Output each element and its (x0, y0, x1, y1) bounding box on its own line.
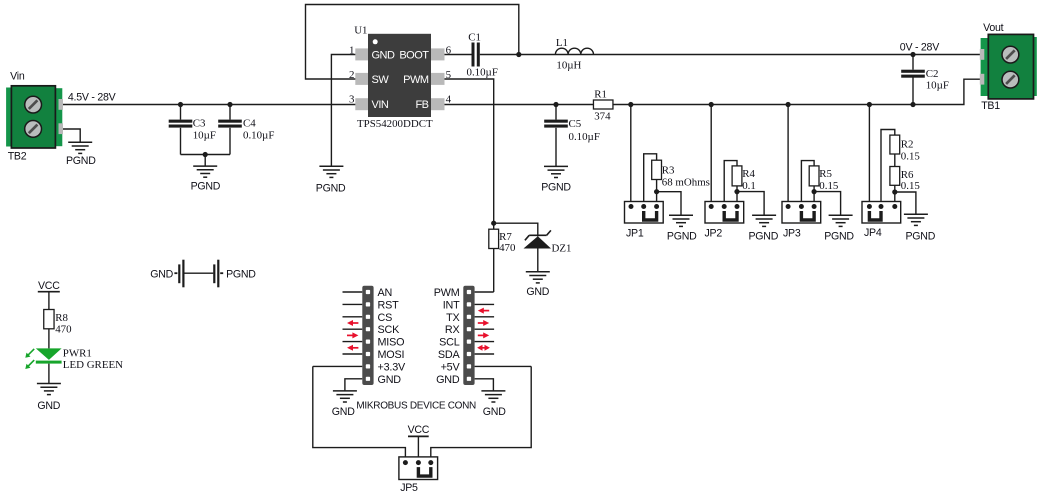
svg-text:PGND: PGND (667, 231, 697, 243)
svg-text:GND: GND (150, 269, 173, 281)
svg-text:PGND: PGND (541, 182, 571, 194)
svg-text:SCK: SCK (378, 324, 401, 336)
svg-text:Vin: Vin (10, 71, 25, 83)
svg-text:0.1: 0.1 (742, 180, 756, 192)
svg-text:0.15: 0.15 (819, 180, 839, 192)
svg-text:C2: C2 (926, 68, 939, 80)
svg-text:1: 1 (349, 45, 354, 57)
svg-text:JP4: JP4 (864, 227, 882, 239)
svg-text:SCL: SCL (439, 337, 460, 349)
svg-text:GND: GND (332, 406, 355, 418)
svg-text:0.10µF: 0.10µF (467, 66, 498, 78)
svg-text:10µH: 10µH (556, 60, 581, 72)
svg-text:+5V: +5V (441, 361, 461, 373)
svg-text:SW: SW (372, 74, 390, 86)
svg-text:TB2: TB2 (8, 151, 27, 163)
svg-text:VCC: VCC (408, 424, 430, 436)
svg-text:PGND: PGND (905, 231, 935, 243)
svg-text:PGND: PGND (748, 231, 778, 243)
svg-text:R3: R3 (662, 164, 675, 176)
svg-text:374: 374 (594, 111, 611, 123)
svg-text:0.10µF: 0.10µF (569, 131, 600, 143)
svg-text:AN: AN (378, 287, 393, 299)
svg-text:4: 4 (446, 94, 452, 106)
svg-text:+3.3V: +3.3V (378, 361, 407, 373)
svg-text:R4: R4 (742, 168, 755, 180)
svg-text:FB: FB (415, 99, 428, 111)
svg-text:GND: GND (372, 49, 396, 61)
svg-text:JP2: JP2 (705, 227, 723, 239)
svg-text:10µF: 10µF (926, 79, 949, 91)
svg-text:JP1: JP1 (626, 227, 644, 239)
svg-text:TPS54200DDCT: TPS54200DDCT (357, 118, 433, 130)
svg-text:68 mOhms: 68 mOhms (662, 177, 710, 189)
svg-text:PGND: PGND (66, 155, 96, 167)
svg-text:MISO: MISO (378, 337, 405, 349)
svg-text:470: 470 (499, 242, 516, 254)
svg-text:0.15: 0.15 (901, 150, 921, 162)
svg-text:PGND: PGND (226, 269, 256, 281)
svg-text:BOOT: BOOT (399, 49, 429, 61)
svg-text:R8: R8 (55, 312, 68, 324)
svg-text:2: 2 (349, 69, 354, 81)
svg-text:10µF: 10µF (193, 130, 216, 142)
svg-text:3: 3 (349, 94, 355, 106)
svg-text:PGND: PGND (824, 231, 854, 243)
svg-text:C4: C4 (243, 118, 256, 130)
svg-text:L1: L1 (556, 37, 568, 49)
svg-text:Vout: Vout (983, 22, 1004, 34)
svg-text:PGND: PGND (316, 182, 346, 194)
svg-text:470: 470 (55, 323, 72, 335)
svg-text:PGND: PGND (191, 180, 221, 192)
svg-text:PWM: PWM (403, 74, 429, 86)
svg-text:GND: GND (37, 400, 60, 412)
svg-text:INT: INT (443, 299, 460, 311)
svg-text:JP3: JP3 (783, 227, 801, 239)
svg-text:PWM: PWM (434, 287, 460, 299)
svg-text:R1: R1 (594, 89, 607, 101)
svg-text:0V - 28V: 0V - 28V (900, 42, 940, 54)
svg-text:VIN: VIN (372, 99, 389, 111)
svg-text:GND: GND (436, 374, 460, 386)
svg-text:R5: R5 (819, 168, 832, 180)
svg-text:LED GREEN: LED GREEN (63, 359, 123, 371)
svg-text:GND: GND (378, 374, 402, 386)
svg-text:C5: C5 (569, 118, 582, 130)
svg-text:4.5V - 28V: 4.5V - 28V (68, 92, 117, 104)
svg-text:TB1: TB1 (981, 100, 1000, 112)
svg-text:C3: C3 (193, 118, 206, 130)
svg-text:JP5: JP5 (400, 482, 418, 494)
svg-text:MOSI: MOSI (378, 349, 405, 361)
svg-text:6: 6 (446, 45, 452, 57)
svg-text:SDA: SDA (438, 349, 461, 361)
svg-text:CS: CS (378, 312, 393, 324)
svg-text:U1: U1 (354, 25, 367, 37)
svg-text:5: 5 (446, 69, 452, 81)
svg-text:MIKROBUS DEVICE CONN: MIKROBUS DEVICE CONN (356, 401, 476, 412)
svg-text:GND: GND (526, 286, 549, 298)
svg-text:VCC: VCC (38, 280, 60, 292)
svg-text:GND: GND (483, 406, 506, 418)
svg-text:0.15: 0.15 (901, 180, 921, 192)
svg-text:PWR1: PWR1 (63, 348, 92, 360)
svg-text:TX: TX (446, 312, 459, 324)
svg-text:DZ1: DZ1 (552, 243, 572, 255)
svg-text:C1: C1 (468, 32, 481, 44)
svg-text:RST: RST (378, 299, 400, 311)
svg-text:RX: RX (445, 324, 460, 336)
svg-text:R2: R2 (901, 139, 914, 151)
svg-text:0.10µF: 0.10µF (243, 130, 274, 142)
